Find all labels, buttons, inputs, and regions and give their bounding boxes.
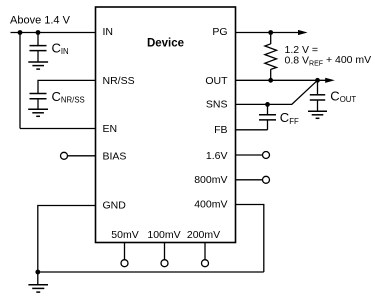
wire EN vertical — [19, 33, 21, 129]
wire pin 50mV stub — [124, 243, 126, 260]
resistor R1 — [265, 33, 277, 81]
wire 1.6V — [236, 154, 263, 156]
ground main — [28, 272, 48, 292]
node junction R1/OUT — [268, 78, 273, 83]
svg-text:Above 1.4 V: Above 1.4 V — [10, 15, 71, 27]
svg-text:SNS: SNS — [206, 98, 228, 110]
svg-text:Device: Device — [147, 38, 184, 50]
svg-text:0.8 VREF + 400 mV: 0.8 VREF + 400 mV — [285, 54, 372, 67]
wire OUT — [236, 79, 327, 81]
ground for CIN — [28, 62, 48, 69]
terminal 800mV — [263, 176, 270, 183]
terminal 50mV — [121, 260, 128, 267]
arrow OUT — [325, 78, 335, 83]
svg-text:CNR/SS: CNR/SS — [52, 89, 85, 105]
wire 800mV — [236, 179, 263, 181]
wire pin 100mV stub — [164, 243, 166, 260]
arrow PG — [298, 30, 308, 35]
terminal 1.6V — [263, 152, 270, 159]
node junction PG/R1 — [268, 30, 273, 35]
wire BIAS — [68, 155, 96, 157]
ground for CNRSS — [28, 109, 48, 116]
wire bottom rail — [38, 271, 264, 273]
capacitor CIN — [30, 33, 47, 62]
terminal 100mV — [161, 260, 168, 267]
capacitor COUT — [310, 80, 325, 111]
device U1 — [96, 7, 236, 243]
wire FB — [236, 129, 268, 131]
svg-text:CFF: CFF — [280, 110, 299, 126]
svg-text:PG: PG — [212, 26, 227, 38]
svg-text:100mV: 100mV — [147, 229, 180, 241]
svg-text:BIAS: BIAS — [103, 150, 127, 162]
svg-text:COUT: COUT — [330, 88, 356, 104]
svg-text:EN: EN — [103, 123, 118, 135]
capacitor CFF — [259, 104, 276, 129]
node junction input A — [18, 30, 23, 35]
svg-text:200mV: 200mV — [187, 229, 220, 241]
svg-text:800mV: 800mV — [194, 174, 227, 186]
capacitor CNRSS — [30, 94, 47, 109]
svg-text:50mV: 50mV — [111, 229, 138, 241]
wire pin 200mV stub — [204, 243, 206, 260]
wire NR/SS — [38, 80, 96, 93]
svg-text:CIN: CIN — [52, 40, 69, 56]
terminal BIAS — [61, 152, 68, 159]
ground for COUT — [308, 111, 327, 118]
node junction OUT/COUT — [315, 78, 320, 83]
wire GND — [38, 206, 96, 273]
svg-text:400mV: 400mV — [194, 198, 227, 210]
node junction input B — [36, 30, 41, 35]
node junction GND — [35, 270, 40, 275]
wire PG — [236, 32, 299, 34]
svg-text:FB: FB — [214, 124, 227, 136]
node junction SNS/CFF — [265, 102, 270, 107]
wire 400mV to bottom rail — [236, 205, 264, 273]
svg-text:IN: IN — [103, 26, 114, 38]
svg-text:OUT: OUT — [205, 75, 228, 87]
terminal 200mV — [202, 260, 209, 267]
wire input rail to IN — [11, 32, 96, 34]
wire EN horizontal — [20, 128, 96, 130]
svg-text:1.6V: 1.6V — [206, 150, 228, 162]
wire SNS with diagonal — [236, 80, 318, 104]
svg-text:NR/SS: NR/SS — [103, 75, 135, 87]
svg-text:GND: GND — [103, 200, 127, 212]
